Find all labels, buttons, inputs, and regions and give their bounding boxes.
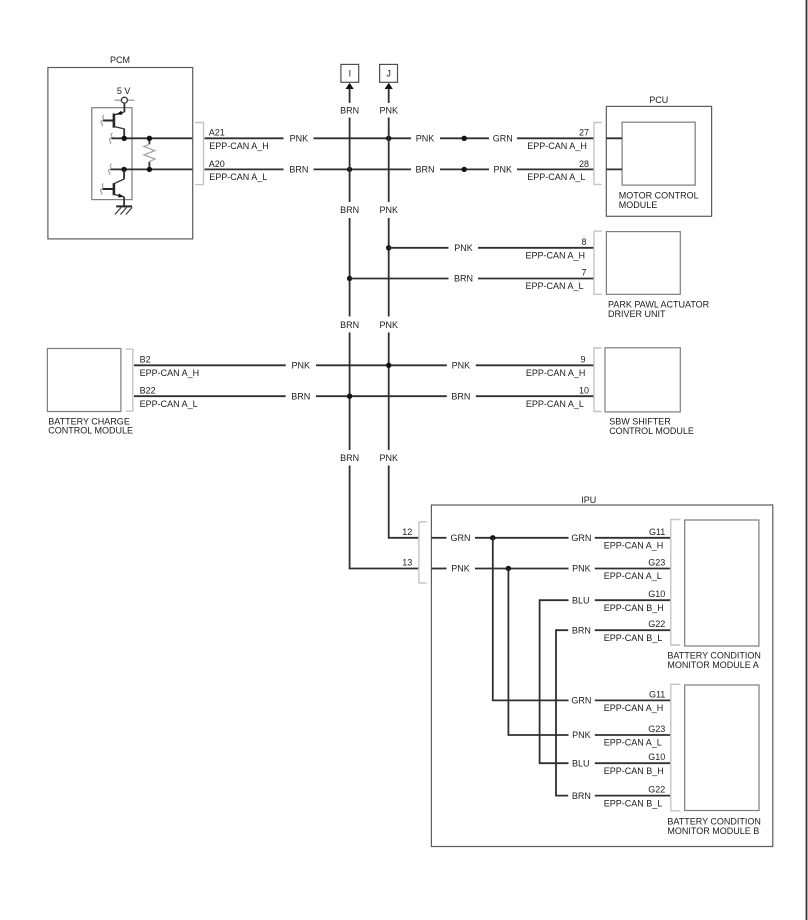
svg-text:PNK: PNK <box>379 320 398 330</box>
svg-text:G10: G10 <box>648 752 665 762</box>
transistor Q2 (NPN low-side) <box>102 169 124 205</box>
wire CAN H inside PCM <box>111 137 192 139</box>
svg-text:GRN: GRN <box>571 533 591 543</box>
PCU module box <box>606 106 711 216</box>
wire stub pin 27 <box>606 137 622 139</box>
junction GRN branch <box>490 535 495 540</box>
svg-text:PNK: PNK <box>416 134 435 144</box>
wire PNK riser to module B <box>508 569 568 736</box>
svg-text:G11: G11 <box>649 527 665 537</box>
wire EPP-CAN A_H seg1 <box>205 137 284 139</box>
wire EPP-CAN A_L seg2 <box>314 168 412 170</box>
wire batt A_H seg3 <box>476 364 594 366</box>
svg-text:B2: B2 <box>140 355 151 365</box>
svg-text:IPU: IPU <box>581 495 596 505</box>
svg-text:EPP-CAN A_L: EPP-CAN A_L <box>527 172 585 182</box>
wire BRN-B seg2 <box>595 795 671 797</box>
svg-text:EPP-CAN A_H: EPP-CAN A_H <box>527 141 587 151</box>
svg-text:G23: G23 <box>648 558 665 568</box>
wire BLU-A seg2 <box>595 599 671 601</box>
svg-text:EPP-CAN B_H: EPP-CAN B_H <box>604 603 664 613</box>
node Q1 collector to CAN H <box>122 136 127 141</box>
bus J seg4 elbow to IPU pin 12 <box>389 466 419 538</box>
junction batt A_H x bus J <box>386 363 391 368</box>
svg-text:EPP-CAN A_L: EPP-CAN A_L <box>604 571 662 581</box>
node resistor bottom <box>147 167 152 172</box>
junction A_H x bus J <box>386 136 391 141</box>
svg-text:PNK: PNK <box>451 564 470 574</box>
svg-text:BRN: BRN <box>572 791 591 801</box>
junction PNK branch <box>506 566 511 571</box>
wire batt A_L seg3 <box>476 395 594 397</box>
svg-text:EPP-CAN B_H: EPP-CAN B_H <box>604 766 664 776</box>
junction A_L x bus I <box>347 167 352 172</box>
SBW connector bracket <box>594 348 602 412</box>
svg-text:10: 10 <box>579 386 589 396</box>
squiggle CAN H wire end <box>109 133 112 144</box>
wire EPP-CAN A_H seg2 <box>314 137 412 139</box>
bus I seg2 <box>349 218 351 317</box>
bus J seg2 <box>388 218 390 317</box>
svg-text:9: 9 <box>580 355 585 365</box>
squiggle Q2 base <box>100 184 103 195</box>
svg-text:PNK: PNK <box>379 205 398 215</box>
PCU inner box motor control module <box>622 122 695 185</box>
svg-text:SBW SHIFTER: SBW SHIFTER <box>609 417 671 427</box>
svg-text:EPP-CAN B_L: EPP-CAN B_L <box>604 633 663 643</box>
wire PNK-B seg2 <box>595 734 671 736</box>
wire GRN-B seg2 <box>595 699 671 701</box>
svg-text:J: J <box>386 69 391 79</box>
svg-text:PNK: PNK <box>452 361 471 371</box>
wire batt A_H seg1 <box>134 364 286 366</box>
wire batt A_H seg2 <box>316 364 447 366</box>
connector box J <box>380 64 398 82</box>
svg-text:EPP-CAN A_L: EPP-CAN A_L <box>604 738 662 748</box>
svg-text:EPP-CAN A_L: EPP-CAN A_L <box>140 399 198 409</box>
bus I seg1 <box>349 118 351 203</box>
svg-text:GRN: GRN <box>571 696 591 706</box>
bus J seg3 <box>388 333 390 451</box>
svg-text:PCM: PCM <box>110 55 130 65</box>
wire IPU A_L entry <box>431 568 446 570</box>
svg-text:EPP-CAN A_L: EPP-CAN A_L <box>526 399 584 409</box>
svg-text:BRN: BRN <box>340 205 359 215</box>
svg-text:MONITOR MODULE A: MONITOR MODULE A <box>667 660 758 670</box>
svg-text:EPP-CAN B_L: EPP-CAN B_L <box>604 798 663 808</box>
wire BRN-A seg2 <box>595 629 671 631</box>
svg-text:PNK: PNK <box>379 453 398 463</box>
wire IPU A_L seg3 <box>595 568 671 570</box>
svg-text:PNK: PNK <box>291 361 310 371</box>
svg-text:G10: G10 <box>648 589 665 599</box>
module B connector bracket <box>671 684 681 811</box>
IPU module box <box>431 505 772 847</box>
ground symbol <box>115 206 132 214</box>
wire BLU module A elbow <box>540 600 569 763</box>
svg-text:PCU: PCU <box>649 95 668 105</box>
bus I seg4 elbow to IPU pin 13 <box>350 466 419 569</box>
splice node A_H <box>462 136 467 141</box>
svg-text:MODULE: MODULE <box>619 200 658 210</box>
svg-text:BATTERY CONDITION: BATTERY CONDITION <box>667 816 761 826</box>
wire IPU A_L seg2 <box>475 568 569 570</box>
svg-text:DRIVER UNIT: DRIVER UNIT <box>608 309 666 319</box>
wire IPU A_H entry <box>431 537 446 539</box>
svg-text:G22: G22 <box>648 619 665 629</box>
svg-text:BRN: BRN <box>291 391 310 401</box>
page right border <box>806 0 808 920</box>
terminating resistor stubs <box>148 138 150 144</box>
svg-text:BATTERY CONDITION: BATTERY CONDITION <box>667 651 761 661</box>
svg-text:BRN: BRN <box>340 320 359 330</box>
svg-text:G22: G22 <box>648 785 665 795</box>
PCM driver inner box <box>92 108 132 200</box>
bus J seg1 <box>388 118 390 203</box>
svg-text:PNK: PNK <box>454 243 473 253</box>
svg-text:G11: G11 <box>649 689 665 699</box>
IPU connector bracket <box>419 522 427 583</box>
svg-text:PNK: PNK <box>572 564 591 574</box>
wire park pawl A_L seg2 <box>478 278 594 280</box>
PCM connector bracket <box>195 123 204 185</box>
svg-text:BRN: BRN <box>451 391 470 401</box>
battery condition monitor module B box <box>685 685 759 811</box>
wire EPP-CAN A_L seg4 <box>517 168 594 170</box>
5V supply terminal <box>114 99 121 101</box>
svg-text:PNK: PNK <box>572 730 591 740</box>
wire CAN L inside PCM <box>110 168 192 170</box>
svg-text:PARK PAWL ACTUATOR: PARK PAWL ACTUATOR <box>608 300 710 310</box>
svg-text:PNK: PNK <box>494 165 513 175</box>
svg-text:PNK: PNK <box>379 106 398 116</box>
svg-text:5 V: 5 V <box>117 86 131 96</box>
svg-text:12: 12 <box>402 527 412 537</box>
wire GRN riser to module B <box>493 538 569 701</box>
wire park pawl A_L seg1 <box>350 278 449 280</box>
junction bus I to park pawl <box>347 276 352 281</box>
svg-text:GRN: GRN <box>451 533 471 543</box>
svg-text:EPP-CAN A_H: EPP-CAN A_H <box>140 368 200 378</box>
svg-text:B22: B22 <box>140 386 156 396</box>
junction bus J to park pawl <box>386 245 391 250</box>
svg-text:I: I <box>349 69 352 79</box>
wire EPP-CAN A_H seg4 <box>517 137 594 139</box>
junction batt A_L x bus I <box>347 394 352 399</box>
battery condition monitor module A box <box>685 520 759 646</box>
connector box I <box>341 64 359 82</box>
svg-text:BRN: BRN <box>415 165 434 175</box>
svg-text:8: 8 <box>581 237 586 247</box>
wire IPU A_H seg3 <box>595 537 671 539</box>
svg-text:BRN: BRN <box>340 106 359 116</box>
svg-text:GRN: GRN <box>493 134 513 144</box>
svg-text:BLU: BLU <box>572 758 590 768</box>
svg-text:28: 28 <box>579 159 589 169</box>
svg-text:MOTOR CONTROL: MOTOR CONTROL <box>619 191 699 201</box>
svg-text:27: 27 <box>579 128 589 138</box>
svg-text:EPP-CAN A_H: EPP-CAN A_H <box>604 541 664 551</box>
svg-text:EPP-CAN A_H: EPP-CAN A_H <box>209 141 269 151</box>
park pawl actuator driver unit box <box>606 232 680 295</box>
svg-text:EPP-CAN A_L: EPP-CAN A_L <box>526 281 584 291</box>
wire 5V to Q1 emitter <box>123 103 125 112</box>
SBW shifter control module box <box>605 348 680 412</box>
node resistor top <box>147 136 152 141</box>
node Q2 collector to CAN L <box>121 167 126 172</box>
svg-text:BLU: BLU <box>572 595 590 605</box>
svg-text:EPP-CAN A_L: EPP-CAN A_L <box>209 172 267 182</box>
svg-text:BRN: BRN <box>454 274 473 284</box>
wire EPP-CAN A_L seg3 <box>440 168 489 170</box>
svg-text:MONITOR MODULE B: MONITOR MODULE B <box>667 826 759 836</box>
svg-text:7: 7 <box>581 268 586 278</box>
wire stub pin 28 <box>606 168 622 170</box>
wire BRN module A elbow <box>556 630 568 795</box>
svg-text:PNK: PNK <box>290 134 309 144</box>
wire park pawl A_H seg1 <box>389 247 449 249</box>
wire EPP-CAN A_H seg3 <box>440 137 489 139</box>
PCU connector bracket <box>594 123 602 185</box>
arrow to connector J <box>385 83 393 89</box>
bus I seg3 <box>349 333 351 451</box>
svg-text:EPP-CAN A_H: EPP-CAN A_H <box>526 368 586 378</box>
svg-text:CONTROL MODULE: CONTROL MODULE <box>609 426 694 436</box>
squiggle CAN L wire end <box>108 164 111 175</box>
park pawl connector bracket <box>594 231 602 294</box>
svg-text:13: 13 <box>402 558 412 568</box>
PCM module box <box>48 68 193 239</box>
svg-text:A21: A21 <box>209 128 225 138</box>
wire BLU-B seg2 <box>595 762 671 764</box>
svg-text:EPP-CAN A_H: EPP-CAN A_H <box>526 250 586 260</box>
wire batt A_L seg1 <box>134 395 286 397</box>
wire park pawl A_H seg2 <box>478 247 594 249</box>
svg-text:G23: G23 <box>648 724 665 734</box>
battery charge connector bracket <box>126 349 133 411</box>
svg-text:BRN: BRN <box>289 165 308 175</box>
transistor Q1 (PNP high-side) <box>103 111 125 139</box>
svg-text:CONTROL MODULE: CONTROL MODULE <box>48 426 133 436</box>
squiggle Q1 base <box>101 115 104 126</box>
svg-text:EPP-CAN A_H: EPP-CAN A_H <box>604 703 664 713</box>
wire EPP-CAN A_L seg1 <box>205 168 284 170</box>
wire batt A_L seg2 <box>316 395 447 397</box>
battery charge control module box <box>47 349 121 412</box>
svg-text:A20: A20 <box>209 159 225 169</box>
wire IPU A_H seg2 <box>475 537 569 539</box>
module A connector bracket <box>671 520 681 646</box>
svg-text:BRN: BRN <box>572 625 591 635</box>
splice node A_L <box>462 167 467 172</box>
arrow to connector I <box>346 83 354 89</box>
resistor between CAN H and CAN L <box>144 144 155 161</box>
svg-text:BRN: BRN <box>340 453 359 463</box>
